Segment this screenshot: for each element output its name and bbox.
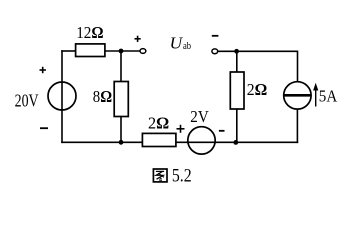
wire through 2V source: [176, 141, 237, 143]
wire left vertical lower: [61, 109, 63, 143]
voltage source 20V circle: [48, 82, 76, 110]
plus sign of terminal a: [135, 36, 141, 42]
terminal a open circle: [140, 49, 146, 54]
arrow of 5A direction: [313, 83, 318, 107]
minus sign of terminal b: [212, 35, 219, 37]
wire terminal b to top-right corner: [218, 50, 298, 52]
minus sign of 20V: [40, 127, 48, 129]
svg-text:2Ω: 2Ω: [148, 114, 169, 133]
wire junction down to vertical 2ohm: [236, 51, 238, 72]
plus sign of 2V: [177, 125, 185, 133]
svg-text:8Ω: 8Ω: [93, 87, 112, 106]
wire resistor to terminal a: [105, 50, 140, 52]
wire through 20V source: [61, 82, 63, 110]
resistor 2ohm vertical box: [230, 72, 244, 109]
svg-text:20V: 20V: [15, 91, 39, 111]
wire top-left horizontal: [61, 50, 75, 52]
svg-text:ab: ab: [183, 41, 191, 52]
caption glyph tu (drawn): [153, 169, 167, 182]
svg-text:5.2: 5.2: [172, 166, 192, 187]
plus sign of 20V: [40, 67, 46, 73]
resistor 8ohm box: [114, 82, 128, 117]
svg-text:2Ω: 2Ω: [247, 80, 267, 99]
svg-text:12Ω: 12Ω: [76, 23, 103, 42]
junction node dot top of 8ohm: [119, 49, 124, 54]
wire bottom-left horizontal: [61, 141, 142, 143]
wire left vertical upper (20V branch): [61, 50, 63, 83]
svg-text:U: U: [170, 33, 184, 52]
current source 5A circle: [284, 82, 311, 109]
voltage source 2V circle: [188, 127, 215, 154]
wire vertical 2ohm down to bottom node: [236, 109, 238, 142]
resistor 12ohm box: [76, 44, 105, 57]
current source bar: [284, 94, 311, 97]
junction node dot bottom of vertical 2ohm: [233, 140, 238, 145]
wire current source down to bottom-right corner: [296, 109, 298, 143]
junction node dot top of vertical 2ohm: [234, 49, 239, 54]
svg-text:2V: 2V: [190, 107, 209, 126]
wire junction down to 8ohm: [120, 51, 122, 82]
junction node dot bottom of 8ohm: [119, 140, 124, 145]
resistor 2ohm horizontal box: [142, 133, 176, 146]
wire bottom-right horizontal: [237, 141, 299, 143]
wire 8ohm down to bottom node: [120, 117, 122, 143]
minus sign of 2V: [219, 130, 225, 132]
svg-text:5A: 5A: [319, 87, 338, 106]
terminal b open circle: [212, 49, 218, 54]
wire top-right vertical down to current source: [297, 51, 299, 82]
